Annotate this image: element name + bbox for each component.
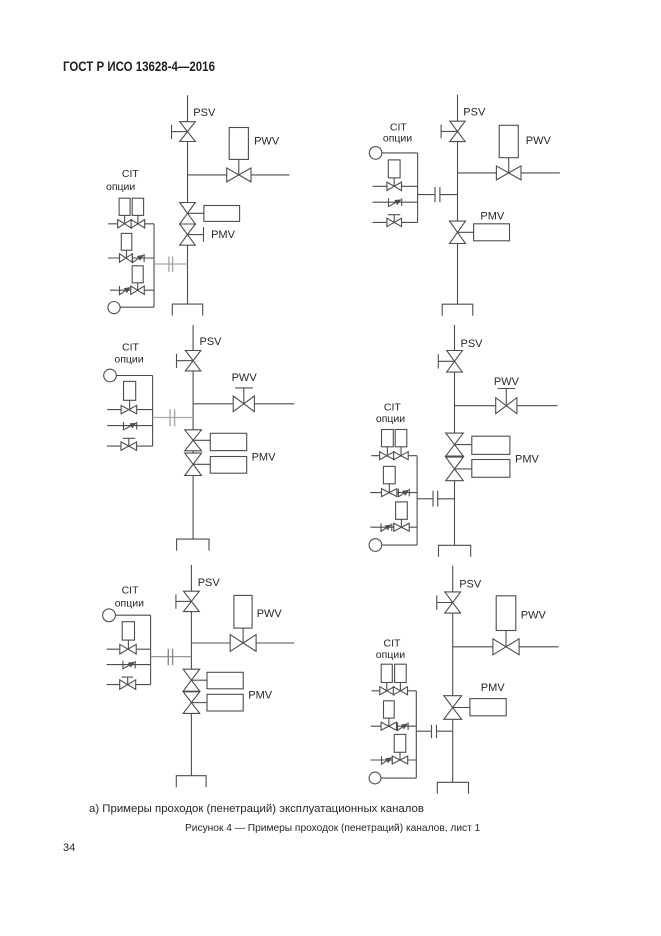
valve PWV (diagram 6) [493,639,519,655]
wire PSV side stem (diagram 5) [176,600,192,602]
wire row1 right stem (diagram 1) [137,215,139,223]
choke CIT row2 (diagram 6) [397,722,408,730]
wire PMV lower actuator link (diagram 4) [455,468,472,470]
wire main bore vertical (diagram 4) [454,325,456,545]
svg-text:PSV: PSV [461,338,484,350]
PSV stem end tick (diagram 2) [440,125,442,139]
label PSV (diagram 1) [193,107,216,119]
svg-text:PWV: PWV [232,372,258,384]
gauge CIT row2 (diagram 1) [121,233,132,250]
wire CIT row2 line (diagram 5) [107,664,151,666]
connector bar left (diagram 2) [434,187,436,202]
wire PMV actuator link (diagram 1) [188,212,204,214]
gauge CIT row1 (diagram 3) [124,381,136,400]
wire main bore vertical (diagram 2) [457,95,459,304]
page number [63,842,75,854]
wire main bore vertical (diagram 1) [187,95,189,304]
wellhead (diagram 6) [437,782,468,794]
valve PSV (diagram 4) [447,351,463,373]
valve PMV (diagram 6) [444,696,462,720]
label опции (diagram 1) [106,181,135,193]
gauge CIT row1 (diagram 5) [122,622,134,640]
wire CIT bus (diagram 4) [416,456,418,545]
label PMV (diagram 1) [211,229,236,241]
actuator PMV (diagram 6) [470,699,506,716]
wire row1 right stem (diagram 4) [400,447,402,456]
gauge CIT row1 (diagram 2) [388,160,400,178]
header: document designation [63,59,215,74]
PWV T-stem tick (diagram 4) [498,388,515,390]
connector wire (diagram 5) [151,656,192,658]
wire PSV side stem (diagram 4) [438,360,454,362]
PSV stem end tick (diagram 4) [437,354,439,368]
gauge CIT row3 (diagram 6) [394,734,406,752]
valve PMV upper (diagram 3) [185,430,202,451]
label опции (diagram 5) [115,598,144,610]
instrument circle (diagram 1) [108,302,120,314]
connector bar left (diagram 4) [432,491,434,507]
valve CIT row1 right (diagram 4) [394,452,409,460]
actuator PMV lower (diagram 3) [210,457,246,474]
connector wire left (diagram 6) [416,730,431,732]
wire row3 T-stem (diagram 5) [127,677,129,685]
valve CIT row2 (diagram 6) [381,722,396,730]
wire PWV branch (diagram 1) [188,174,290,176]
actuator PWV (diagram 5) [234,595,252,628]
svg-text:опции: опции [115,598,144,610]
wire row3 T-stem (diagram 2) [393,215,395,223]
svg-text:PMV: PMV [480,211,505,223]
wire circle link (diagram 5) [115,614,150,616]
wire PMV upper actuator link (diagram 5) [191,679,207,681]
row3 T-stem tick (diagram 3) [123,437,136,439]
gauge CIT row1 left (diagram 6) [381,664,392,682]
connector bar right (diagram 4) [437,491,439,507]
label PSV (diagram 5) [198,577,221,589]
wire PMV actuator link (diagram 6) [453,707,470,709]
PMV tap end tick (diagram 1) [203,227,205,242]
wire circle link (diagram 6) [381,777,416,779]
wire PWV branch (diagram 3) [193,403,294,405]
wire circle link (diagram 2) [382,152,418,154]
wire PMV lower tap (diagram 1) [188,234,204,236]
label PSV (diagram 2) [463,107,486,119]
actuator PWV (diagram 2) [499,125,518,157]
connector bar right (diagram 5) [172,649,174,665]
valve CIT row3 (diagram 1) [131,286,145,294]
wire PMV lower actuator link (diagram 3) [193,463,210,465]
wire circle link (diagram 4) [382,544,417,546]
PWV T-stem tick (diagram 3) [235,387,252,389]
wire PMV upper actuator link (diagram 3) [193,439,210,441]
actuator PWV (diagram 6) [496,596,516,631]
connector bar left (diagram 6) [431,725,433,739]
wire CIT bus (diagram 6) [415,691,417,778]
wire CIT row2 line (diagram 4) [370,492,417,494]
svg-text:опции: опции [383,133,412,145]
choke CIT row3 (diagram 4) [380,523,391,531]
svg-text:CIT: CIT [390,122,408,134]
svg-text:PMV: PMV [481,682,506,694]
gauge CIT row1 left (diagram 4) [382,430,394,447]
wire CIT row1 line (diagram 1) [108,223,154,225]
valve PWV (diagram 2) [496,166,521,180]
label PMV (diagram 3) [252,452,277,464]
instrument circle (diagram 4) [369,539,382,552]
valve PMV (diagram 2) [450,221,466,243]
wire PSV side stem (diagram 1) [172,131,188,133]
gauge CIT row2 (diagram 4) [383,466,395,483]
valve PSV (diagram 1) [180,122,196,142]
wire PWV branch (diagram 6) [453,646,559,648]
gauge CIT row3 (diagram 1) [132,266,143,283]
choke CIT row2 (diagram 5) [122,661,135,669]
label PMV (diagram 5) [248,689,272,701]
valve CIT row2 (diagram 4) [382,489,397,497]
wire PMV upper actuator link (diagram 4) [455,444,472,446]
wire CIT row2 line (diagram 3) [107,425,152,427]
wire CIT row2 line (diagram 2) [373,201,418,203]
svg-text:опции: опции [106,181,135,193]
svg-text:PMV: PMV [248,689,272,701]
valve CIT row1 (diagram 2) [387,182,402,190]
wire row1 stem (diagram 5) [127,640,129,649]
wellhead (diagram 1) [172,304,202,316]
instrument circle (diagram 6) [369,772,381,784]
svg-text:опции: опции [376,413,405,425]
wire main bore vertical (diagram 5) [190,565,192,776]
svg-text:PWV: PWV [494,376,520,388]
valve PMV lower (diagram 1) [180,224,196,245]
svg-text:CIT: CIT [384,401,402,413]
label PWV (diagram 5) [257,608,283,620]
choke CIT row2 (diagram 1) [132,254,144,263]
gauge CIT row1 left (diagram 1) [119,198,130,215]
connector bar right (diagram 1) [172,256,174,272]
wire PSV side stem (diagram 3) [177,360,194,362]
valve CIT row1 left (diagram 6) [380,687,394,695]
wire PWV actuator stem (diagram 6) [505,631,507,647]
wire PMV actuator link (diagram 2) [458,231,474,233]
wire PWV actuator stem (diagram 1) [238,159,240,175]
choke CIT row3 (diagram 1) [119,286,131,295]
wire circle link (diagram 3) [116,375,152,377]
instrument circle (diagram 3) [104,369,117,382]
caption a) [89,803,424,815]
connector wire right (diagram 2) [440,194,457,196]
wire row3 stem (diagram 1) [137,283,139,290]
svg-text:CIT: CIT [122,342,140,354]
instrument circle (diagram 5) [103,609,116,622]
svg-text:PMV: PMV [515,454,540,466]
svg-text:PSV: PSV [198,577,221,589]
wire circle link (diagram 1) [120,306,154,308]
wire PWV T-stem (diagram 3) [243,388,245,404]
wire row3 T-stem (diagram 3) [128,438,130,446]
label PSV (diagram 6) [459,579,482,591]
wire main bore vertical (diagram 6) [452,566,454,783]
valve PWV (diagram 5) [230,635,256,652]
wellhead (diagram 4) [439,545,471,557]
label опции (diagram 4) [376,413,405,425]
label CIT (diagram 1) [122,168,139,180]
actuator PMV upper (diagram 4) [472,436,510,454]
label PWV (diagram 4) [494,376,520,388]
wire CIT row3 line (diagram 6) [371,759,417,761]
PSV stem end tick (diagram 6) [436,595,438,609]
label PSV (diagram 3) [200,336,223,348]
actuator PWV (diagram 1) [229,128,248,160]
valve PSV (diagram 6) [445,592,461,613]
valve CIT row2 (diagram 1) [120,254,133,262]
connector bar left (diagram 3) [169,409,171,426]
actuator PMV lower (diagram 4) [472,460,510,478]
wire CIT row3 line (diagram 3) [107,445,153,447]
actuator PMV (diagram 1) [204,206,240,222]
valve PMV upper (diagram 4) [446,433,464,456]
label PMV (diagram 6) [481,682,506,694]
wire row2 stem (diagram 1) [126,250,128,258]
gauge CIT row2 (diagram 6) [384,701,395,718]
connector bar right (diagram 6) [436,725,438,739]
connector wire left (diagram 2) [418,194,435,196]
valve CIT row3 (diagram 4) [394,523,409,531]
valve PSV (diagram 5) [184,591,200,611]
valve CIT row1 left (diagram 4) [380,452,395,460]
label PWV (diagram 1) [254,135,280,147]
actuator PMV upper (diagram 3) [210,433,246,450]
wire PWV actuator stem (diagram 2) [508,158,510,173]
wire PMV lower actuator link (diagram 5) [191,702,207,704]
wire row2 stem (diagram 4) [388,484,390,493]
valve PWV (diagram 3) [233,396,254,412]
valve CIT row1 right (diagram 1) [131,220,145,228]
PSV stem end tick (diagram 1) [171,125,173,139]
svg-text:PSV: PSV [463,107,486,119]
figure caption [185,823,480,834]
wire row2 stem (diagram 6) [388,718,390,726]
wire row1 stem (diagram 3) [129,400,131,409]
valve PMV lower (diagram 3) [185,453,202,475]
valve PMV upper (diagram 1) [180,203,196,225]
connector wire right (diagram 4) [438,498,455,500]
actuator PMV (diagram 2) [474,224,510,241]
connector bar right (diagram 3) [174,409,176,426]
connector wire (diagram 1) [154,263,188,265]
svg-text:PWV: PWV [526,135,552,147]
wellhead (diagram 3) [177,539,209,551]
valve CIT row3 (diagram 5) [120,680,136,690]
svg-text:PWV: PWV [521,609,547,621]
wire PWV branch (diagram 4) [455,405,558,407]
valve CIT row1 (diagram 3) [121,405,137,413]
wire CIT row1 line (diagram 2) [373,185,418,187]
label PMV (diagram 2) [480,211,505,223]
svg-text:опции: опции [376,649,405,661]
connector bar right (diagram 2) [439,187,441,202]
valve CIT row3 (diagram 6) [392,756,407,764]
valve CIT row3 (diagram 2) [387,218,402,226]
svg-text:PMV: PMV [252,452,277,464]
wire CIT row1 line (diagram 4) [371,455,417,457]
connector wire (diagram 3) [153,417,194,419]
svg-text:PWV: PWV [254,135,280,147]
svg-text:опции: опции [114,354,143,366]
label опции (diagram 3) [114,354,143,366]
wire row3 stem (diagram 6) [399,752,401,760]
choke CIT row2 (diagram 2) [388,198,402,206]
connector bar left (diagram 5) [167,649,169,665]
svg-text:CIT: CIT [122,168,139,180]
gauge CIT row1 right (diagram 4) [395,430,407,447]
valve PSV (diagram 2) [450,121,465,141]
wellhead (diagram 5) [176,776,206,788]
svg-text:PMV: PMV [211,229,236,241]
wire row1 stem (diagram 2) [393,178,395,186]
label CIT (diagram 5) [122,585,140,597]
svg-text:PSV: PSV [459,579,482,591]
wire CIT row3 line (diagram 4) [370,526,417,528]
wire CIT row2 line (diagram 1) [108,257,154,259]
label опции (diagram 6) [376,649,405,661]
PSV stem end tick (diagram 3) [176,354,178,368]
label CIT (diagram 3) [122,342,140,354]
choke CIT row2 (diagram 4) [398,489,410,497]
label CIT (diagram 2) [390,122,408,134]
choke CIT row3 (diagram 6) [381,756,392,764]
wire CIT bus (diagram 3) [152,376,154,447]
PSV stem end tick (diagram 5) [175,594,177,608]
choke CIT row2 (diagram 3) [123,422,137,430]
connector bar left (diagram 1) [168,256,170,272]
svg-text:PSV: PSV [193,107,216,119]
wire CIT row1 line (diagram 5) [107,648,151,650]
wire PWV T-stem (diagram 4) [505,389,507,406]
valve CIT row3 (diagram 3) [121,442,137,450]
wire row1 right stem (diagram 6) [399,683,401,691]
gauge CIT row1 right (diagram 6) [395,664,407,682]
wellhead (diagram 2) [442,304,473,316]
wire CIT row1 line (diagram 6) [372,690,417,692]
wire CIT bus (diagram 1) [153,224,155,307]
row3 T-stem tick (diagram 5) [122,676,134,678]
wire row1 left stem (diagram 1) [124,215,126,223]
gauge CIT row3 (diagram 4) [396,502,408,519]
wire CIT bus (diagram 2) [417,153,419,223]
valve CIT row1 (diagram 5) [120,644,136,654]
label PMV (diagram 4) [515,454,540,466]
label PSV (diagram 4) [461,338,484,350]
svg-text:PWV: PWV [257,608,283,620]
instrument circle (diagram 2) [369,147,382,160]
wire row3 stem (diagram 4) [400,519,402,527]
valve CIT row1 left (diagram 1) [118,220,132,228]
svg-text:CIT: CIT [384,638,402,650]
valve PSV (diagram 3) [185,351,200,371]
wire CIT row3 line (diagram 1) [110,289,154,291]
label CIT (diagram 6) [384,638,402,650]
row3 T-stem tick (diagram 2) [388,214,401,216]
valve PMV lower (diagram 4) [446,457,464,481]
label опции (diagram 2) [383,133,412,145]
wire row1 left stem (diagram 4) [386,447,388,456]
wire PSV side stem (diagram 2) [441,130,457,132]
actuator PMV lower (diagram 5) [207,694,243,711]
gauge CIT row1 right (diagram 1) [132,198,143,215]
wire main bore vertical (diagram 3) [192,325,194,539]
svg-text:CIT: CIT [122,585,140,597]
label PWV (diagram 2) [526,135,552,147]
label PWV (diagram 6) [521,609,547,621]
connector wire right (diagram 6) [437,730,453,732]
wire PWV branch (diagram 5) [191,642,294,644]
valve PWV (diagram 1) [227,168,251,182]
wire CIT bus (diagram 5) [150,615,152,684]
wire row1 left stem (diagram 6) [386,683,388,691]
connector wire left (diagram 4) [417,498,433,500]
wire PWV branch (diagram 2) [458,172,560,174]
valve PMV lower (diagram 5) [183,692,200,714]
label PWV (diagram 3) [232,372,258,384]
wire CIT row3 line (diagram 5) [107,684,151,686]
wire PWV actuator stem (diagram 5) [242,628,244,643]
svg-text:PSV: PSV [200,336,223,348]
wire CIT row2 line (diagram 6) [371,725,417,727]
wire PSV side stem (diagram 6) [437,602,453,604]
label CIT (diagram 4) [384,401,402,413]
actuator PMV upper (diagram 5) [207,672,243,689]
valve PWV (diagram 4) [496,398,517,414]
wire CIT row3 line (diagram 2) [373,221,418,223]
wire CIT row1 line (diagram 3) [107,409,152,411]
valve PMV upper (diagram 5) [183,669,200,691]
valve CIT row1 right (diagram 6) [393,687,407,695]
